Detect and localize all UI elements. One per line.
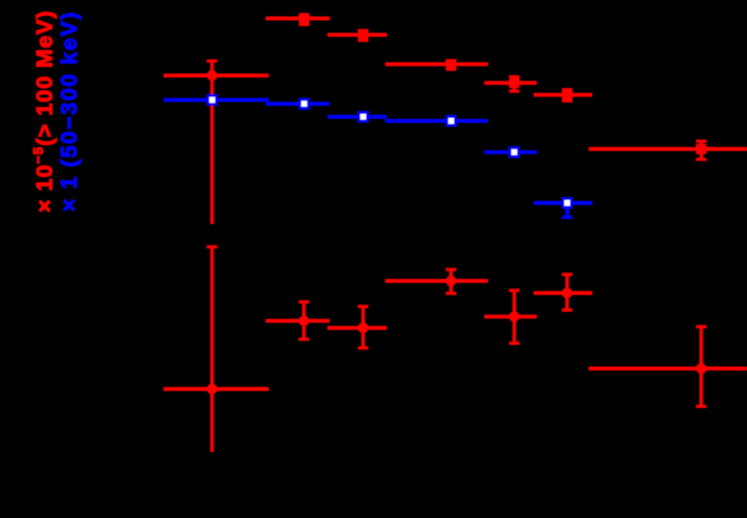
red top series point bin6 [534,88,593,102]
red bottom series point bin1 [164,245,269,452]
svg-text:× 10−5(> 100 MeV): × 10−5(> 100 MeV) [30,10,57,213]
blue series point bin1 [164,94,269,106]
blue series point bin3 [327,111,387,123]
red top series point bin5 [484,75,537,93]
svg-text:× 1 (50−300 keV): × 1 (50−300 keV) [57,11,82,212]
red bottom series point bin3 [327,305,387,350]
red bottom series point bin6 [534,273,593,312]
red bottom series point bin2 [266,300,330,341]
blue series point bin4 [385,115,488,127]
red bottom series point bin7 [589,325,747,408]
blue series point bin6 [534,197,593,219]
red top series point bin2 [266,13,330,26]
red bottom series point bin4 [385,268,488,295]
red bottom series point bin5 [484,289,537,345]
red top series point bin3 [327,29,387,42]
red top series point bin4 [385,59,488,71]
red top series point bin7 [589,140,747,161]
red top series point bin1 [164,59,269,224]
blue series point bin2 [266,98,330,110]
blue series point bin5 [484,146,537,158]
